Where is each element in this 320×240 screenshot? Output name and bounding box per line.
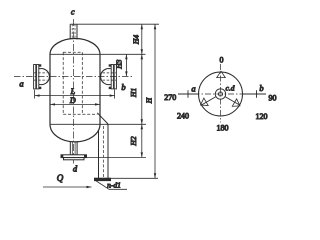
dimension L: [35, 90, 115, 99]
radial line 240: [201, 97, 216, 105]
dimension D: [50, 103, 100, 105]
label n-d1 with leader: [96, 181, 128, 190]
wire top extension line from nozzle c to H dimension: [70, 23, 159, 25]
support leg symbol at 120: [232, 99, 242, 110]
support leg: [99, 124, 109, 178]
svg-text:c.d: c.d: [226, 84, 235, 93]
dimension chain line H4/H1/H2: [141, 24, 143, 157]
svg-text:c: c: [71, 6, 75, 16]
top view center nozzle flange circles: [215, 89, 225, 99]
internal tube (hidden, dashed): [63, 52, 97, 114]
wire flange d level extension line to H2: [87, 156, 147, 158]
vessel bottom head: [50, 124, 100, 142]
svg-text:H3: H3: [114, 59, 123, 69]
svg-text:d: d: [73, 163, 78, 173]
vessel shell left wall: [49, 54, 51, 124]
svg-text:a: a: [191, 83, 195, 93]
support leg symbol at 0: [217, 71, 226, 77]
support leg gusset: [97, 113, 108, 124]
support leg base plate: [94, 178, 110, 181]
svg-text:a: a: [19, 78, 23, 88]
nozzle d flange: [61, 155, 87, 160]
nozzle d bottom pipe: [70, 141, 77, 155]
svg-text:H4: H4: [132, 35, 141, 45]
wire vessel vertical center line: [72, 19, 74, 165]
top view circle (vessel shell): [199, 72, 243, 116]
svg-text:H2: H2: [129, 136, 138, 146]
svg-text:120: 120: [256, 112, 268, 121]
nozzle b projection line with flange tick: [243, 90, 266, 97]
vessel shell right wall: [99, 54, 101, 124]
svg-text:n-d1: n-d1: [107, 181, 121, 190]
svg-text:b: b: [121, 82, 125, 92]
svg-text:270: 270: [164, 93, 176, 102]
vessel bottom tangent line (extends right as H2 extension): [50, 123, 146, 125]
svg-text:H1: H1: [129, 88, 138, 98]
svg-text:L: L: [70, 87, 76, 96]
wire top view vertical center line: [220, 64, 222, 123]
nozzle a projection line with flange tick: [178, 90, 199, 97]
svg-text:D: D: [69, 96, 76, 105]
nozzle c pipe: [70, 24, 77, 39]
radial line 120: [225, 97, 240, 105]
wire nozzle a center line: [14, 75, 134, 77]
nozzle a (left): [34, 64, 50, 89]
dimension H overall: [154, 24, 156, 178]
svg-text:90: 90: [269, 93, 277, 102]
svg-text:240: 240: [177, 111, 189, 120]
dimension H3: [125, 54, 127, 76]
wire top tangent line (extends right as H4/H1 extension): [50, 53, 146, 55]
vessel top head: [50, 39, 100, 55]
svg-text:Q: Q: [57, 173, 64, 183]
svg-text:0: 0: [220, 55, 224, 64]
svg-text:H: H: [145, 97, 154, 104]
nozzle b (right): [101, 64, 117, 89]
svg-text:180: 180: [217, 123, 229, 132]
wire base level extension line to H: [111, 177, 158, 179]
svg-text:b: b: [259, 83, 263, 93]
wire top view horizontal center line: [194, 93, 249, 95]
support leg symbol at 240: [198, 98, 208, 109]
